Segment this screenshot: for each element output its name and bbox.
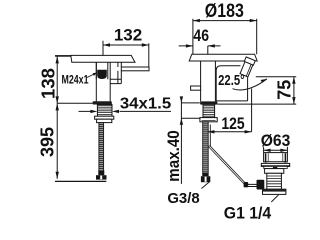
svg-text:G1 1/4: G1 1/4 xyxy=(224,204,272,223)
svg-text:Ø183: Ø183 xyxy=(205,0,244,21)
svg-text:138: 138 xyxy=(37,68,58,99)
svg-text:G3/8: G3/8 xyxy=(167,191,199,207)
svg-text:max.40: max.40 xyxy=(165,130,183,182)
svg-text:46: 46 xyxy=(193,27,209,45)
svg-text:125: 125 xyxy=(221,115,245,134)
svg-text:395: 395 xyxy=(37,127,57,157)
svg-text:132: 132 xyxy=(114,25,142,44)
svg-text:34x1.5: 34x1.5 xyxy=(120,95,171,113)
svg-text:Ø63: Ø63 xyxy=(261,132,291,150)
svg-text:75: 75 xyxy=(275,80,295,100)
svg-text:M24x1: M24x1 xyxy=(61,74,88,86)
svg-text:22.5°: 22.5° xyxy=(218,71,245,88)
